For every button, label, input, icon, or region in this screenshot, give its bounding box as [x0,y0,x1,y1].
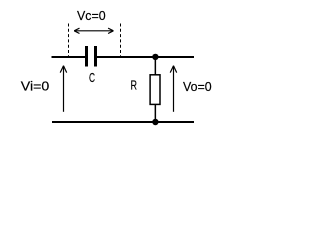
svg-text:C: C [89,70,95,85]
measurement dashed line right [120,24,122,57]
wire resistor bottom lead [155,104,157,122]
annotation Vo arrow [170,66,177,112]
svg-text:Vc=0: Vc=0 [77,8,106,23]
wire resistor top lead [155,57,157,75]
svg-text:Vi=0: Vi=0 [21,79,49,94]
svg-text:R: R [131,78,138,93]
measurement dashed line left [68,24,70,57]
wire top rail left segment (input to capacitor) [52,56,86,58]
annotation Vc double-headed arrow [74,28,113,33]
wire top rail right segment (capacitor to output) [97,56,194,58]
wire bottom rail [52,121,194,123]
resistor R [150,75,160,105]
svg-text:Vo=0: Vo=0 [183,79,212,94]
node junction top (resistor to top rail) [152,54,158,60]
capacitor C [85,46,97,67]
annotation Vi arrow [60,66,66,112]
node junction bottom (resistor to bottom rail) [152,119,158,125]
